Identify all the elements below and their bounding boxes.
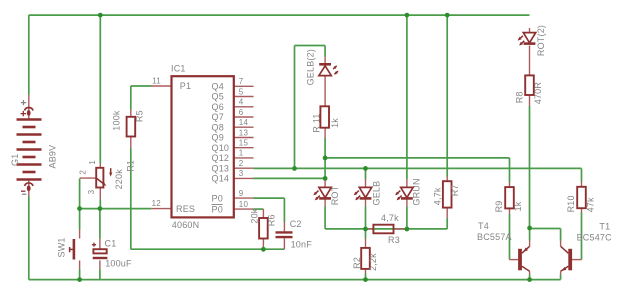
svg-text:BC557A: BC557A xyxy=(477,232,512,242)
IC1 pin 1 stub (Q12) xyxy=(234,157,254,159)
IC1 pin 7 stub (Q4) xyxy=(234,85,254,87)
svg-text:20k: 20k xyxy=(249,208,259,223)
svg-text:14: 14 xyxy=(239,118,249,127)
wire LED cathode line ROT-GELB-GRUN-R7 xyxy=(325,228,447,230)
battery G1 + mark xyxy=(21,100,26,105)
IC1 pin 14 stub (Q8) xyxy=(234,126,254,128)
svg-text:11: 11 xyxy=(152,76,161,85)
svg-text:Q9: Q9 xyxy=(212,133,224,143)
R11 bottom stem xyxy=(324,128,326,138)
svg-text:Q5: Q5 xyxy=(212,92,224,102)
junction xyxy=(98,206,103,211)
junction xyxy=(98,13,103,18)
ROT(2) anode stem xyxy=(529,28,531,33)
trimmer R1 pin2 stub xyxy=(80,177,97,179)
R8 bottom stem xyxy=(529,95,531,106)
LED GELB(2) xyxy=(319,63,331,66)
IC1 pin 6 stub (Q7) xyxy=(234,116,254,118)
wire left vertical from rail to battery + xyxy=(28,15,30,94)
wire rail drop to trimmer R1 pin 1 xyxy=(99,15,101,163)
svg-text:Q12: Q12 xyxy=(212,153,230,163)
svg-text:2: 2 xyxy=(79,170,88,175)
svg-text:R2: R2 xyxy=(352,257,362,269)
LED GELB xyxy=(359,187,371,197)
svg-text:4: 4 xyxy=(239,98,244,107)
svg-text:R8: R8 xyxy=(515,91,525,103)
ROT cathode stem xyxy=(324,199,326,207)
T4 emitter stem xyxy=(529,241,531,247)
wire GRUN cathode down xyxy=(406,207,408,230)
R3 left stub xyxy=(366,228,374,230)
junction xyxy=(527,226,532,231)
svg-text:G1: G1 xyxy=(10,154,20,166)
wire T4 collector to rail xyxy=(529,275,531,280)
svg-text:ROT(2): ROT(2) xyxy=(536,25,546,56)
wire T1 emitter to rail end xyxy=(560,275,562,280)
svg-text:15: 15 xyxy=(239,139,249,148)
wire junction to ROT anode xyxy=(324,158,326,179)
svg-text:100k: 100k xyxy=(112,110,122,131)
junction xyxy=(527,277,532,282)
IC1 pin 4 stub (Q6) xyxy=(234,106,254,108)
wire SW1 bottom to rail xyxy=(79,270,81,280)
LED GRUN xyxy=(401,187,413,197)
wire GELB(2) loop left vertical xyxy=(294,46,296,169)
battery - stem xyxy=(28,180,30,197)
R3 right stub xyxy=(394,228,407,230)
resistor R3 4.7k xyxy=(373,225,393,234)
wire R2 top from junction xyxy=(365,229,367,239)
GELB(2) LED top stem xyxy=(324,57,326,65)
junction xyxy=(405,227,410,232)
IC1 pin 10 stub (P0!) xyxy=(234,208,254,210)
R10 bottom stem xyxy=(581,208,583,212)
T1 emitter stem xyxy=(560,271,562,274)
GRUN anode stem xyxy=(406,179,408,187)
svg-text:220k: 220k xyxy=(114,169,124,190)
svg-text:3: 3 xyxy=(87,189,96,194)
C1 bottom stem xyxy=(99,260,101,269)
svg-text:7: 7 xyxy=(239,77,244,86)
switch SW1 xyxy=(73,239,76,260)
junction xyxy=(323,176,328,181)
resistor R9 1k xyxy=(505,187,514,208)
wire Q13 line (pin 2) to R10 xyxy=(254,167,582,169)
junction xyxy=(363,227,368,232)
R5 top stem xyxy=(130,110,132,117)
wire T1 base to R10 bottom xyxy=(581,213,583,260)
svg-text:Q10: Q10 xyxy=(212,143,230,153)
C2 top stem xyxy=(283,222,285,231)
junction xyxy=(77,206,82,211)
R9 top stem xyxy=(509,183,511,188)
svg-text:1: 1 xyxy=(239,149,244,158)
GELB(2) LED to R11 stem xyxy=(324,77,326,107)
svg-text:R6: R6 xyxy=(267,214,277,226)
IC1 pin 11 stub (P1) xyxy=(151,85,171,87)
wire ROT cathode down xyxy=(324,207,326,229)
wire R5 bottom down to C2/R6 line xyxy=(130,149,132,250)
svg-text:4,7k: 4,7k xyxy=(433,187,443,205)
R6 top stem xyxy=(262,209,264,218)
wire R7 bottom to cathode line xyxy=(446,218,448,229)
R9 bottom stem xyxy=(509,208,511,214)
wire R9 bottom to T4 base xyxy=(509,214,511,260)
wire P0 (pin 9) to C2 xyxy=(254,197,285,199)
wire R5/R6/C2 bottom line xyxy=(131,248,285,250)
svg-text:4,7k: 4,7k xyxy=(381,213,399,223)
wire C1 bottom to rail xyxy=(99,270,101,280)
svg-text:P0: P0 xyxy=(212,204,223,214)
svg-text:1k: 1k xyxy=(513,201,523,211)
trimmer R1 pin3 stem xyxy=(99,188,101,200)
svg-text:ROT: ROT xyxy=(330,185,340,205)
wire junction A down to T4 emitter xyxy=(529,229,531,241)
svg-text:4060N: 4060N xyxy=(172,220,200,230)
svg-text:R1: R1 xyxy=(126,160,136,172)
capacitor C1 xyxy=(93,249,106,253)
svg-text:P0: P0 xyxy=(212,193,223,203)
transistor T1 BC547C xyxy=(568,249,572,270)
wire node line from R11 to R9 xyxy=(325,157,509,159)
IC1 pin 3 stub (Q14) xyxy=(234,177,254,179)
wire GELB anode from Q13 line xyxy=(365,168,367,179)
svg-text:1: 1 xyxy=(88,160,97,165)
svg-text:2,2k: 2,2k xyxy=(368,253,378,271)
wire R5 top up to P1 corner xyxy=(130,86,132,110)
svg-text:10nF: 10nF xyxy=(291,239,313,249)
IC1 pin 9 stub (P0) xyxy=(234,197,254,199)
svg-text:R 11: R 11 xyxy=(311,113,321,132)
resistor R11 1k xyxy=(320,106,329,127)
T4 collector stem xyxy=(529,271,531,274)
ROT(2) cathode to R8 stem xyxy=(529,46,531,76)
T1 collector stem xyxy=(560,241,562,247)
trimmer R1 pin1 stem xyxy=(99,164,101,168)
GRUN cathode stem xyxy=(406,199,408,207)
resistor R7 4.7k xyxy=(443,181,452,207)
svg-text:P1: P1 xyxy=(180,81,191,91)
GELB anode stem xyxy=(365,179,367,187)
IC1 pin 5 stub (Q5) xyxy=(234,96,254,98)
resistor R8 470R xyxy=(525,75,534,95)
wire Q13 line corner down to R10 top xyxy=(581,168,583,182)
junction xyxy=(405,13,410,18)
junction xyxy=(363,166,368,171)
svg-text:12: 12 xyxy=(152,199,162,208)
R2 bottom stem xyxy=(365,269,367,274)
junction xyxy=(445,13,450,18)
wire Q14 line (pin 3) to ROT xyxy=(254,177,326,179)
wire node to SW1 top xyxy=(79,209,81,230)
resistor R5 100k xyxy=(127,117,136,137)
svg-text:GELB(2): GELB(2) xyxy=(306,49,316,85)
GELB cathode stem xyxy=(365,199,367,207)
R5 bottom stem xyxy=(130,137,132,149)
wire R8 bottom down to junction A xyxy=(529,106,531,229)
wire corner down to R9 top xyxy=(509,158,511,183)
svg-text:GELB: GELB xyxy=(372,181,382,206)
wire GELB(2) loop top xyxy=(295,45,326,47)
svg-text:9: 9 xyxy=(239,189,244,198)
svg-text:Q7: Q7 xyxy=(212,112,224,122)
svg-text:1k: 1k xyxy=(330,118,340,128)
svg-text:R9: R9 xyxy=(494,200,504,212)
wire rail drop to GRUN anode xyxy=(406,15,408,179)
wire node line to IC RES xyxy=(80,208,152,210)
wire trimmer pin 2 drop xyxy=(79,179,81,209)
resistor R10 47k xyxy=(577,187,586,208)
battery + stem xyxy=(28,95,30,120)
op-amp IC1 4060N box xyxy=(172,76,234,217)
junction xyxy=(261,247,266,252)
svg-text:T1: T1 xyxy=(599,222,610,232)
IC1 pin 12 stub (RES) xyxy=(151,208,171,210)
wire rail drop to R7 top xyxy=(446,15,448,176)
resistor R6 20k xyxy=(259,218,268,239)
svg-text:RES: RES xyxy=(176,204,195,214)
wire T1 collector corner down xyxy=(560,229,562,241)
svg-text:47k: 47k xyxy=(586,197,596,212)
battery G1 xyxy=(17,118,42,121)
svg-text:5: 5 xyxy=(239,87,244,96)
junction xyxy=(323,156,328,161)
svg-text:3: 3 xyxy=(239,169,244,178)
C2 bottom stem xyxy=(283,238,285,249)
SW1 bottom pin xyxy=(79,261,81,270)
T4 base stub xyxy=(510,259,519,261)
svg-text:100uF: 100uF xyxy=(105,258,132,268)
wire R11 bottom to junction xyxy=(324,138,326,158)
LED ROT xyxy=(319,187,331,197)
R10 top stem xyxy=(581,182,583,187)
svg-text:Q13: Q13 xyxy=(212,163,230,173)
wire P1 line corner to R5 xyxy=(131,85,152,87)
svg-text:R7: R7 xyxy=(450,184,460,196)
svg-text:IC1: IC1 xyxy=(171,64,186,74)
R6 bottom stem xyxy=(262,239,264,250)
R2 top stem xyxy=(365,239,367,248)
junction xyxy=(77,277,82,282)
svg-text:T4: T4 xyxy=(478,221,489,231)
IC1 pin 2 stub (Q13) xyxy=(234,167,254,169)
C1 top stem xyxy=(99,239,101,250)
wire trimmer R1 pin 3 to node line xyxy=(99,200,101,209)
wire bottom ground rail xyxy=(29,279,561,281)
svg-text:2: 2 xyxy=(239,159,244,168)
svg-text:6: 6 xyxy=(239,108,244,117)
svg-text:Q14: Q14 xyxy=(212,174,230,184)
LED ROT(2) xyxy=(523,33,535,43)
svg-text:C2: C2 xyxy=(290,219,302,229)
svg-text:R10: R10 xyxy=(566,195,576,212)
T1 base stub xyxy=(572,259,581,261)
ROT anode stem xyxy=(324,178,326,187)
junction xyxy=(363,277,368,282)
svg-text:R5: R5 xyxy=(135,110,145,122)
svg-text:C1: C1 xyxy=(105,239,117,249)
svg-text:AB9V: AB9V xyxy=(47,145,57,169)
R7 top stem xyxy=(446,177,448,182)
wire GELB cathode down xyxy=(365,207,367,229)
svg-text:13: 13 xyxy=(239,128,249,137)
IC1 pin 13 stub (Q9) xyxy=(234,137,254,139)
wire node to C1 top xyxy=(99,209,101,239)
resistor R2 2.2k xyxy=(361,248,370,269)
wire P0 corner down to C2 top xyxy=(283,198,285,222)
svg-text:470R: 470R xyxy=(533,82,543,105)
wire R2 bottom to rail xyxy=(365,274,367,280)
svg-text:SW1: SW1 xyxy=(56,237,66,257)
junction xyxy=(292,166,297,171)
transistor T4 BC557A xyxy=(518,249,522,270)
IC1 pin 15 stub (Q10) xyxy=(234,147,254,149)
wire P0! (pin 10) to R6 xyxy=(254,208,264,210)
trimmer R1 220k xyxy=(96,168,103,188)
SW1 top pin xyxy=(79,230,81,239)
svg-text:10: 10 xyxy=(239,200,249,209)
svg-text:GRUN: GRUN xyxy=(412,178,422,205)
battery G1 - mark xyxy=(22,193,26,195)
svg-text:Q6: Q6 xyxy=(212,102,224,112)
svg-text:Q4: Q4 xyxy=(212,82,224,92)
wire top supply rail xyxy=(29,14,530,16)
capacitor C2 10nF xyxy=(276,231,293,233)
svg-text:Q8: Q8 xyxy=(212,122,224,132)
wire GELB(2) loop right down to LED xyxy=(324,46,326,57)
svg-text:BC547C: BC547C xyxy=(577,232,613,242)
R7 bottom stem xyxy=(446,208,448,218)
wire junction A to T1 collector corner xyxy=(530,228,561,230)
svg-text:R3: R3 xyxy=(388,235,400,245)
wire battery - down to bottom rail xyxy=(28,197,30,280)
